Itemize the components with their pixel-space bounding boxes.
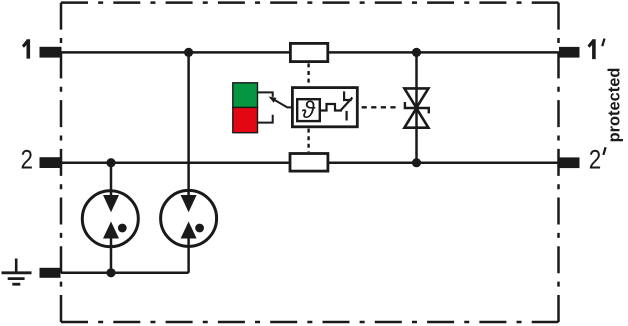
dashed sense line to resistor R1 [307, 63, 309, 86]
pulse waveform trace [321, 104, 342, 111]
disconnect switch actuator hook [344, 91, 352, 100]
svg-text:2: 2 [21, 144, 34, 174]
gas discharge tube F1 spark-gap arrows and dot [103, 195, 127, 239]
device boundary dash-dot border right [557, 3, 560, 322]
resistor R1 (decoupling impedance, line 1) [290, 43, 327, 61]
svg-text:protected: protected [606, 68, 624, 143]
wire line 2 horizontal [61, 161, 559, 164]
svg-text:2: 2 [589, 144, 602, 174]
terminal 1' (right, black block) [559, 47, 580, 58]
gas discharge tube F2 (circle) [161, 190, 217, 246]
gas discharge tube F2 internal stubs [187, 189, 190, 247]
indicator contact lower stub (red) [258, 115, 273, 123]
junction node line2/GDT1 branch [106, 158, 115, 167]
suppressor diode lower triangle [404, 108, 428, 128]
disconnect switch blade [340, 98, 352, 111]
dashed sense line to suppressor diode [362, 106, 399, 108]
ground symbol [2, 259, 32, 285]
thermal disconnect module U1 (outer box) [292, 88, 357, 127]
device boundary dash-dot border bottom [61, 321, 559, 324]
device boundary dash-dot border top [61, 1, 559, 4]
svg-text:ϑ: ϑ [302, 97, 316, 124]
junction node line1/GDT2 branch [184, 48, 193, 57]
wire vertical from line 2 to gas discharge tube F1 [110, 163, 113, 273]
wire ground bus horizontal [61, 272, 189, 275]
terminal 1 (left, black block) [40, 47, 62, 58]
indicator window green field [233, 83, 258, 108]
dashed sense line to resistor R2 [307, 129, 309, 152]
label 1 [22, 39, 30, 58]
terminal 2 (left, black block) [40, 157, 62, 168]
terminal ground (left, black block) [40, 268, 61, 278]
gas discharge tube F1 internal stubs [110, 189, 113, 247]
wire vertical from line 1 to gas discharge tube F2 [187, 52, 190, 272]
gas discharge tube F1 (circle) [82, 191, 138, 247]
suppressor diode (bidirectional TVS) upper triangle [404, 88, 428, 107]
wire vertical suppressor diode branch [415, 52, 418, 162]
terminal 2' (right, black block) [559, 157, 580, 168]
junction node line1/diode branch [412, 48, 421, 57]
device boundary dash-dot border left [60, 3, 63, 322]
indicator contact upper stub (green) [258, 92, 273, 97]
wire line 1 horizontal [61, 51, 559, 54]
indicator selector blade with arrow [271, 98, 292, 108]
indicator window red field [233, 108, 258, 133]
junction node line2/diode branch [412, 158, 421, 167]
gas discharge tube F2 spark-gap arrows and dot [181, 195, 204, 239]
label 1 prime [588, 39, 596, 59]
disconnect switch fixed contact [346, 111, 348, 121]
thermal sensor inner box [297, 99, 320, 121]
suppressor diode bar with bent ends [405, 102, 429, 113]
resistor R2 (decoupling impedance, line 2) [290, 154, 328, 172]
junction node ground bus/GDT1 [106, 268, 115, 277]
